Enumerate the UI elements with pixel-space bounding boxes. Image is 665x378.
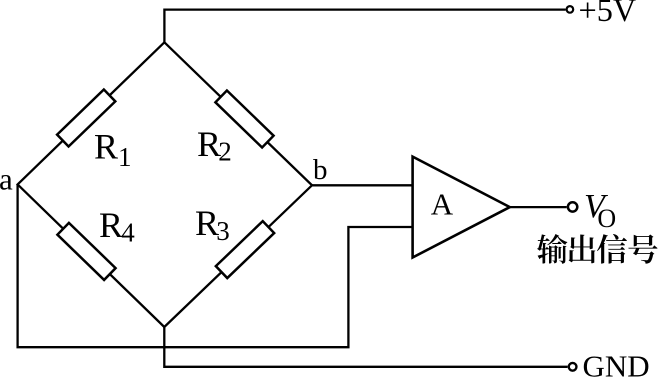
- svg-text:b: b: [313, 154, 328, 186]
- svg-text:GND: GND: [583, 348, 650, 378]
- svg-text:2: 2: [218, 137, 232, 167]
- svg-text:R: R: [99, 205, 123, 245]
- svg-text:a: a: [0, 162, 13, 197]
- svg-text:+5V: +5V: [579, 0, 637, 28]
- svg-text:3: 3: [216, 216, 230, 246]
- svg-text:1: 1: [118, 142, 132, 172]
- svg-text:A: A: [431, 187, 454, 222]
- svg-text:O: O: [597, 204, 616, 233]
- svg-text:R: R: [94, 127, 118, 167]
- svg-text:4: 4: [121, 217, 135, 247]
